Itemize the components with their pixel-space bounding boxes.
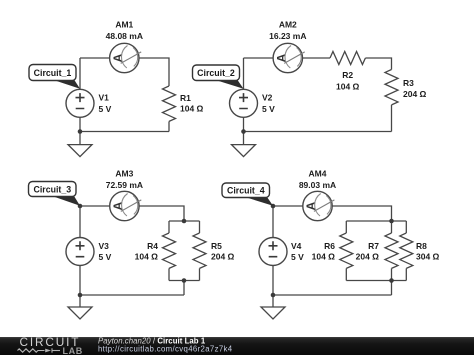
- svg-text:V3: V3: [99, 241, 110, 251]
- node circuit4 parallel top: [389, 219, 394, 224]
- node circuit1 bottom junction: [78, 129, 83, 134]
- svg-text:R8: R8: [416, 241, 427, 251]
- svg-text:AM3: AM3: [115, 169, 133, 179]
- ammeter AM1: [110, 43, 142, 72]
- node circuit3 bottom junction: [78, 293, 83, 298]
- svg-text:48.08 mA: 48.08 mA: [106, 31, 143, 41]
- voltage source V2: [230, 89, 258, 117]
- resistor R6: [340, 233, 353, 268]
- svg-text:Circuit_2: Circuit_2: [197, 68, 235, 78]
- wire top rail to AM2 left: [244, 57, 274, 59]
- wire circuit4 bottom return: [273, 294, 392, 296]
- wire R4 bottom lead: [168, 268, 170, 280]
- wire R5 top lead: [199, 221, 201, 233]
- svg-text:Circuit_4: Circuit_4: [227, 186, 265, 196]
- flag Circuit_3: [29, 182, 81, 206]
- svg-text:104 Ω: 104 Ω: [135, 252, 159, 262]
- node circuit3 parallel top: [182, 219, 187, 224]
- svg-text:5 V: 5 V: [291, 252, 304, 262]
- wire AM4 right to parallel top node: [332, 206, 391, 221]
- ground circuit1: [68, 145, 92, 157]
- svg-text:R2: R2: [342, 70, 353, 80]
- resistor R4: [163, 233, 176, 268]
- wire R8 top lead: [405, 221, 407, 233]
- svg-text:R5: R5: [211, 241, 222, 251]
- svg-text:A: A: [304, 201, 318, 210]
- resistor R1: [163, 86, 176, 121]
- resistor R8: [400, 233, 413, 268]
- svg-text:204 Ω: 204 Ω: [403, 89, 427, 99]
- svg-text:5 V: 5 V: [99, 104, 112, 114]
- ammeter AM3: [110, 191, 142, 220]
- wire R1 bottom lead: [168, 121, 170, 131]
- wire V2 bottom to ground: [243, 118, 245, 145]
- node circuit2 bottom junction: [241, 129, 246, 134]
- wire top rail to AM1 left: [80, 57, 110, 59]
- wire R6 top lead: [345, 221, 347, 233]
- ammeter AM4: [303, 191, 335, 220]
- svg-text:5 V: 5 V: [99, 252, 112, 262]
- voltage source V1: [66, 89, 94, 117]
- svg-text:Circuit_1: Circuit_1: [34, 68, 72, 78]
- node circuit4 parallel bottom: [389, 278, 394, 283]
- svg-text:16.23 mA: 16.23 mA: [269, 31, 306, 41]
- ammeter AM2: [273, 43, 305, 72]
- svg-text:A: A: [111, 201, 125, 210]
- wire R7 top lead: [391, 221, 393, 233]
- svg-text:89.03 mA: 89.03 mA: [299, 180, 336, 190]
- wire circuit3 bottom return: [80, 294, 184, 296]
- svg-text:A: A: [274, 53, 288, 62]
- wire R3 bottom lead: [391, 105, 393, 132]
- svg-text:AM4: AM4: [309, 169, 327, 179]
- wire V3 bottom to ground: [79, 266, 81, 307]
- flag Circuit_1: [29, 65, 80, 89]
- svg-text:104 Ω: 104 Ω: [180, 104, 204, 114]
- svg-text:Circuit_3: Circuit_3: [33, 185, 71, 195]
- svg-text:104 Ω: 104 Ω: [336, 82, 360, 92]
- svg-text:V4: V4: [291, 241, 302, 251]
- svg-text:204 Ω: 204 Ω: [211, 252, 235, 262]
- svg-text:A: A: [111, 53, 125, 62]
- wire circuit1 bottom rail: [80, 131, 169, 133]
- resistor R7: [385, 233, 398, 268]
- wire V1 top to top rail: [79, 58, 81, 89]
- wire node4 to AM4 left: [273, 205, 303, 207]
- wire circuit3 top rail: [169, 220, 200, 222]
- resistor R5: [193, 233, 206, 268]
- svg-text:R4: R4: [147, 241, 158, 251]
- svg-text:LAB: LAB: [63, 346, 83, 355]
- node circuit4 flag anchor: [271, 204, 276, 209]
- wire parallel bottom node down: [183, 281, 185, 296]
- wire R6 bottom lead: [345, 268, 347, 280]
- node circuit3 flag anchor: [78, 204, 83, 209]
- wire R5 bottom lead: [199, 268, 201, 280]
- svg-text:V1: V1: [99, 93, 110, 103]
- wire AM1 right to R1 top corner: [139, 58, 169, 86]
- wire R8 bottom lead: [405, 268, 407, 280]
- svg-text:AM1: AM1: [115, 20, 133, 30]
- wire V2 top to top rail: [243, 58, 245, 89]
- node circuit3 parallel bottom: [182, 278, 187, 283]
- svg-text:104 Ω: 104 Ω: [312, 252, 336, 262]
- wire R4 top lead: [168, 221, 170, 233]
- svg-text:R6: R6: [324, 241, 335, 251]
- wire parallel4 bottom node down: [391, 281, 393, 296]
- node circuit4 bottom junction: [271, 293, 276, 298]
- wire circuit4 top rail: [346, 220, 406, 222]
- wire R7 bottom lead: [391, 268, 393, 280]
- voltage source V3: [66, 238, 94, 266]
- wire AM3 right to parallel top node: [139, 206, 184, 221]
- wire node4 to V4 top: [272, 206, 274, 237]
- flag Circuit_4: [222, 183, 273, 206]
- svg-text:R7: R7: [368, 241, 379, 251]
- wire V4 bottom to ground: [272, 266, 274, 307]
- svg-text:304 Ω: 304 Ω: [416, 252, 440, 262]
- footer logo schematic line: [18, 348, 61, 352]
- flag Circuit_2: [193, 65, 244, 89]
- ground circuit4: [261, 307, 285, 319]
- resistor R2: [330, 52, 365, 65]
- wire V1 bottom to ground: [79, 118, 81, 145]
- voltage source V4: [259, 238, 287, 266]
- svg-text:204 Ω: 204 Ω: [356, 252, 380, 262]
- ground circuit2: [232, 145, 256, 157]
- svg-text:AM2: AM2: [279, 20, 297, 30]
- resistor R3: [385, 70, 398, 105]
- footer logo diode: [45, 349, 51, 353]
- wire node3 to AM3 left: [80, 205, 110, 207]
- wire circuit2 bottom rail: [244, 131, 392, 133]
- svg-text:5 V: 5 V: [262, 104, 275, 114]
- svg-text:V2: V2: [262, 93, 273, 103]
- svg-text:R1: R1: [180, 93, 191, 103]
- wire AM2 right to R2 left lead: [303, 57, 331, 59]
- svg-text:R3: R3: [403, 78, 414, 88]
- wire R2 right lead to R3 top: [365, 58, 391, 70]
- svg-text:72.59 mA: 72.59 mA: [106, 180, 143, 190]
- wire circuit3 bottom rail: [169, 280, 200, 282]
- wire node3 to V3 top: [79, 206, 81, 237]
- svg-text:http://circuitlab.com/cvq46r2a: http://circuitlab.com/cvq46r2a7z7k4: [98, 344, 233, 353]
- ground circuit3: [68, 307, 92, 319]
- wire circuit4 bottom rail: [346, 280, 406, 282]
